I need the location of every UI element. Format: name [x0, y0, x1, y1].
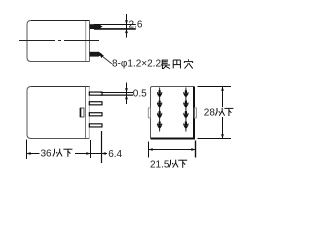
text 下 (21.5以下): [178, 160, 187, 168]
note text 円: [173, 60, 180, 68]
terminal B2: [183, 101, 188, 108]
extension line pin S1 top: [101, 92, 134, 94]
text 以 (36以下): [53, 149, 62, 157]
dimension 2.6 arrows: [125, 20, 128, 24]
text 下 (36以下): [63, 149, 72, 157]
extension line pin1 bottom: [94, 28, 136, 30]
dimension 6.4 line and arrow: [91, 153, 102, 155]
latch dark edge: [80, 108, 82, 117]
pin P1 (top view upper terminal): [90, 24, 103, 29]
pin P2 (top view lower terminal): [90, 52, 103, 57]
svg-text:36: 36: [41, 148, 53, 159]
svg-text:21.5: 21.5: [150, 159, 170, 170]
dimension 0.5 arrows: [125, 88, 128, 92]
dimension 36 right extension: [90, 140, 92, 158]
svg-text:2.6: 2.6: [129, 19, 143, 30]
inner flange line side view: [85, 87, 87, 139]
dim 21.5 arrow left: [149, 148, 153, 151]
dim 36 arrow left: [27, 152, 31, 155]
text 以 (21.5以下): [169, 160, 178, 168]
terminal B1: [183, 90, 188, 97]
svg-text:8-φ1.2×2.2: 8-φ1.2×2.2: [112, 59, 161, 70]
svg-text:0.5: 0.5: [133, 89, 147, 100]
dim 28 arrow top: [221, 87, 224, 91]
dimension 2.6 line: [126, 14, 128, 38]
terminal column A line: [159, 88, 161, 132]
note text 長: [161, 60, 170, 69]
dimension 36 line: [27, 153, 91, 155]
pin S2: [89, 102, 102, 105]
terminal A3: [157, 111, 162, 118]
dimension 28 bottom extension: [198, 138, 232, 140]
dim 28 text bg: [203, 107, 232, 117]
relay body side view: [27, 87, 90, 139]
text 下 (28以下): [224, 108, 233, 116]
pin tip extension for 6.4: [101, 131, 103, 163]
dim 28 arrow bottom: [221, 134, 224, 138]
note text 穴: [184, 59, 193, 68]
text 以 (28以下): [215, 108, 224, 116]
dimension 21.5 right extension: [195, 141, 197, 158]
dim 36 text bg: [40, 148, 76, 158]
dimension 28 top extension: [198, 86, 232, 88]
latch window: [80, 108, 84, 117]
dimension 28 line: [222, 87, 224, 139]
pin S4: [89, 124, 102, 127]
right tab: [194, 108, 196, 118]
extension line pin S1 bottom: [101, 94, 134, 96]
extension line pin1 top: [94, 24, 136, 26]
terminal B3: [183, 111, 188, 118]
terminal column B line: [185, 88, 187, 132]
inner flange line: [85, 21, 87, 61]
dim 36 arrow right: [86, 152, 90, 155]
leader arrowhead: [99, 54, 104, 58]
relay body top view: [27, 21, 90, 62]
dim 21.5 arrow right: [191, 148, 195, 151]
terminal B4: [183, 122, 188, 129]
terminal A2: [157, 101, 162, 108]
pin S3: [89, 113, 102, 116]
svg-text:6.4: 6.4: [108, 149, 122, 160]
dimension 0.5 line: [126, 83, 128, 105]
terminal A1: [157, 90, 162, 97]
terminal A4: [157, 122, 162, 129]
pin S1: [89, 92, 102, 95]
dimension 21.5 line: [149, 149, 196, 151]
leader line to hole note: [101, 55, 112, 63]
svg-text:28: 28: [204, 107, 216, 118]
center line: [19, 40, 99, 42]
relay body front view: [151, 87, 196, 140]
dimension 21.5 left extension: [148, 142, 150, 158]
left tab: [148, 108, 150, 118]
dimension 36 left extension: [26, 140, 28, 160]
